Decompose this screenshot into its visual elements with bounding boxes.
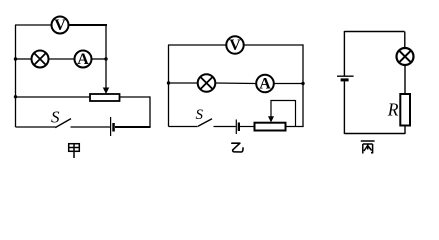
wire rheostat to right edge bbox=[286, 126, 304, 128]
node junction left of lamp row bbox=[14, 57, 17, 60]
wire right vertical lower bbox=[149, 96, 151, 127]
lamp (circle with X, circuit 乙) bbox=[198, 74, 216, 92]
svg-text:V: V bbox=[229, 37, 241, 54]
wire bottom left segment bbox=[169, 126, 198, 128]
wire bottom segment bbox=[344, 133, 405, 135]
label 甲 bbox=[69, 144, 80, 158]
wire right vertical upper bbox=[105, 24, 107, 89]
wire bottom left segment bbox=[16, 126, 56, 128]
slider arrow onto rheostat (circuit 乙) bbox=[268, 101, 274, 123]
lamp (circle with X, circuit 丙) bbox=[397, 48, 414, 65]
svg-text:A: A bbox=[259, 76, 271, 93]
svg-text:S: S bbox=[196, 107, 204, 123]
switch S blade (circuit 乙) bbox=[198, 119, 212, 126]
ammeter A (circuit 乙) bbox=[256, 75, 274, 93]
resistor R body (circuit 丙) bbox=[400, 94, 410, 126]
wire left vertical (circuit 甲) bbox=[15, 25, 17, 127]
wire rheostat row left bbox=[16, 96, 91, 98]
wire top-left segment bbox=[168, 44, 226, 46]
wire left vertical lower bbox=[343, 81, 345, 134]
ammeter A (circuit 甲) bbox=[75, 51, 92, 69]
wire lamp row left bbox=[16, 58, 32, 60]
wire slider loop right vertical bbox=[295, 100, 297, 127]
rheostat body (circuit 甲) bbox=[90, 94, 120, 101]
wire top-left segment bbox=[15, 24, 52, 26]
svg-text:V: V bbox=[54, 17, 66, 34]
wire slider loop top bbox=[270, 100, 295, 102]
wire right vertical bbox=[302, 44, 304, 127]
wire ammeter to right node bbox=[92, 58, 107, 60]
wire battery to switch bbox=[71, 126, 111, 128]
node junction left at rheostat row bbox=[14, 95, 17, 98]
label 乙 bbox=[232, 143, 243, 152]
wire rheostat to right bbox=[120, 96, 151, 98]
battery cell (circuit 乙) bbox=[236, 120, 240, 135]
wire battery to rheostat bbox=[240, 126, 255, 128]
battery cell (circuit 甲) bbox=[111, 117, 115, 136]
voltmeter V (circuit 甲) bbox=[52, 17, 69, 35]
wire ammeter to right node bbox=[274, 83, 303, 85]
wire top-right segment (thick) bbox=[69, 24, 108, 26]
wire left vertical (circuit 乙) bbox=[168, 45, 170, 127]
wire top-right segment bbox=[244, 44, 304, 46]
wire between lamp and ammeter bbox=[49, 58, 75, 60]
rheostat body (circuit 乙) bbox=[255, 123, 286, 131]
wire lamp to resistor bbox=[404, 65, 406, 94]
node junction right of lamp row bbox=[301, 82, 304, 85]
switch S blade (circuit 甲) bbox=[55, 119, 71, 128]
wire between lamp and ammeter bbox=[215, 82, 256, 85]
battery cell (circuit 丙) bbox=[337, 76, 354, 81]
svg-text:R: R bbox=[387, 99, 399, 119]
svg-text:A: A bbox=[77, 51, 89, 68]
wire left vertical upper bbox=[343, 31, 345, 76]
wire switch to battery bbox=[214, 126, 236, 128]
wire bottom right segment (thick) bbox=[115, 126, 151, 128]
svg-text:S: S bbox=[51, 108, 60, 127]
label 丙 bbox=[361, 141, 375, 154]
wire resistor to bottom bbox=[404, 126, 406, 135]
lamp (circle with X, circuit 甲) bbox=[32, 51, 49, 68]
node junction left of lamp row bbox=[167, 81, 170, 84]
node junction right of lamp row bbox=[104, 57, 107, 60]
wire top segment (circuit 丙) bbox=[344, 31, 404, 33]
voltmeter V (circuit 乙) bbox=[226, 36, 243, 54]
wire lamp row left bbox=[169, 82, 198, 84]
slider arrow onto rheostat (circuit 甲) bbox=[103, 88, 109, 95]
wire right vertical upper bbox=[404, 32, 406, 49]
